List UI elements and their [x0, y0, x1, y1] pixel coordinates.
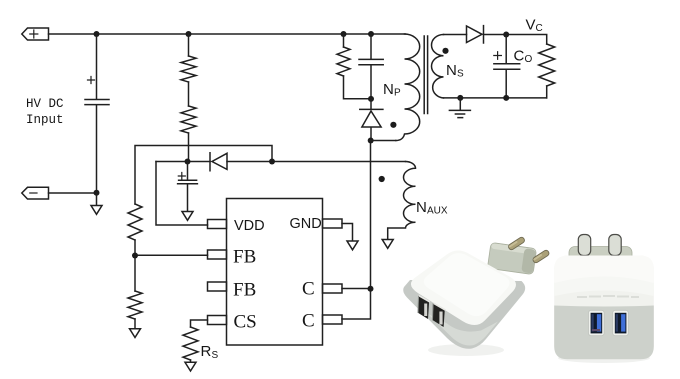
label Rs [201, 343, 219, 361]
svg-text:O: O [525, 54, 533, 65]
label HV DC Input [26, 97, 64, 127]
label NP [383, 81, 401, 99]
node top rail / snubber resistor junction [341, 31, 347, 37]
node snubber bottom junction [368, 96, 374, 102]
resistor R-startup-1 [181, 34, 196, 82]
capacitor C-in (bulk input capacitor) [85, 34, 109, 193]
svg-text:N: N [446, 62, 457, 79]
pin VDD stub [208, 220, 227, 229]
resistor R-load [539, 44, 555, 86]
ground arrow aux [382, 240, 393, 249]
charger photo right: usb3 port 2 [613, 310, 629, 335]
pin C2 stub [323, 315, 343, 324]
charger photo left: white top face [411, 250, 516, 325]
ground arrow fb divider [130, 319, 141, 338]
charger photo left: body lower light shading [428, 314, 498, 346]
svg-text:C: C [302, 311, 315, 332]
charger photo right: eu plug base [569, 247, 632, 267]
svg-text:N: N [383, 81, 394, 98]
polarity dot aux [379, 176, 385, 182]
svg-text:VDD: VDD [234, 218, 265, 234]
terminal + (HV DC positive input) [22, 28, 49, 40]
charger photo left: usb port 1 [418, 296, 429, 320]
capacitor C-snubber [359, 34, 383, 99]
capacitor Co output [494, 35, 520, 99]
charger photo right: eu pin 2 [609, 235, 621, 256]
polarity dot primary [390, 122, 396, 128]
pin GND stub [323, 219, 343, 228]
label VC [526, 17, 543, 35]
svg-text:V: V [526, 17, 536, 34]
resistor R-fb-upper [128, 204, 142, 240]
wire primary bottom [371, 140, 396, 142]
svg-text:GND: GND [290, 216, 322, 232]
resistor R-snubber [337, 34, 371, 99]
node top rail / startup divider junction [186, 31, 192, 37]
svg-text:FB: FB [233, 247, 256, 268]
charger photo left: plug base [487, 242, 536, 274]
resistor R-startup-2 [181, 82, 196, 162]
transformer secondary winding NS [432, 35, 444, 99]
pin FB2 stub [208, 282, 227, 291]
svg-text:P: P [394, 88, 401, 99]
ground arrow GND pin [347, 241, 358, 250]
node secondary ground junction [457, 95, 463, 101]
resistor R-fb-lower [128, 291, 142, 319]
label Co [514, 48, 533, 66]
charger photo right: usb3 port 1 [589, 310, 605, 335]
svg-text:FB: FB [233, 280, 256, 301]
svg-text:CS: CS [234, 312, 257, 333]
diode D-clamp (points up) [360, 99, 383, 141]
wire output rail [484, 35, 547, 45]
polarity dot secondary [442, 48, 448, 54]
node output cap junction bottom [503, 95, 509, 101]
pin FB1 stub [208, 250, 227, 259]
charger photo left: mains pin 1 [508, 236, 526, 250]
IC U1 controller box [227, 199, 323, 346]
svg-text:C: C [514, 48, 525, 65]
ground arrow vdd cap [182, 212, 193, 221]
charger photo right: floor shadow [558, 353, 650, 363]
svg-text:S: S [212, 350, 219, 361]
wire secondary bottom rail [444, 86, 547, 98]
charger photo left: usb port 2 [433, 303, 445, 327]
label NS [446, 62, 464, 80]
charger photo right: white body [554, 256, 654, 360]
svg-text:C: C [302, 279, 315, 300]
node input cap negative junction [94, 190, 100, 196]
node fb divider tap [132, 253, 138, 259]
transformer primary winding NP [396, 34, 420, 141]
charger photo left: floor shadow [428, 344, 504, 356]
transformer core [424, 36, 427, 114]
ground arrow Rs [185, 360, 196, 371]
wire secondary top to diode [444, 34, 467, 36]
node top rail / snubber cap junction [368, 31, 374, 37]
svg-text:AUX: AUX [427, 206, 448, 217]
charger photo left: face sheen [424, 253, 510, 316]
svg-text:HV DC: HV DC [26, 97, 64, 111]
node startup/vdd-cap junction [185, 159, 191, 165]
node aux feed junction [269, 159, 275, 165]
capacitor C-vdd [178, 162, 198, 212]
label NAUX [416, 199, 448, 217]
svg-text:N: N [416, 199, 427, 216]
wire C pins to drain line [342, 141, 371, 320]
wire CS pin to Rs [191, 320, 208, 327]
wire top rail [49, 33, 406, 35]
charger photo right: eu pin 1 [578, 235, 590, 256]
diode D-vdd (points left, cathode left) [210, 153, 227, 171]
svg-text:C: C [536, 23, 543, 34]
charger photo right: body top sheen [554, 256, 654, 290]
diode D-out (points right) [467, 26, 484, 43]
wire vdd node rail [156, 161, 406, 163]
charger photo right: body mid tone [554, 277, 654, 297]
wire bottom input rail [49, 192, 97, 194]
terminal - (HV DC negative input) [22, 187, 49, 199]
charger photo right: faint logo dots [578, 296, 638, 297]
svg-text:Input: Input [26, 113, 64, 127]
transformer aux winding NAUX [388, 162, 416, 240]
charger photo left: body gray [403, 280, 525, 349]
wire fb tap [135, 240, 208, 291]
pin C1 stub [323, 284, 343, 293]
node output cap junction top [503, 32, 509, 38]
node primary bottom junction [368, 138, 374, 144]
node drain C1 junction [368, 286, 374, 292]
wire GND pin to ground [342, 224, 353, 242]
wire feedback sense loop [135, 146, 272, 205]
svg-text:S: S [457, 69, 464, 80]
ground arrow primary return [91, 193, 102, 214]
pin CS stub [208, 316, 227, 325]
earth ground secondary [449, 98, 470, 118]
charger photo right: gray lower face [554, 306, 654, 360]
resistor Rs current sense [183, 327, 198, 360]
wire vdd pin feed [156, 162, 208, 226]
svg-text:R: R [201, 343, 212, 360]
charger photo left: mains pin 2 [532, 249, 550, 263]
node top rail / input cap junction [94, 31, 100, 37]
